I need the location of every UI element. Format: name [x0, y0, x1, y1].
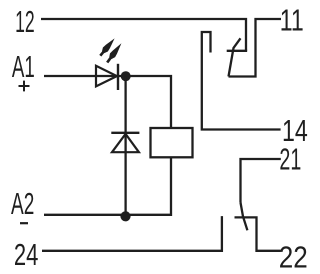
LED D1 triangle (anode) [96, 66, 117, 87]
junction node on A2 line [120, 211, 130, 221]
wire terminal 12 to NC fixed contact of K1 [41, 19, 246, 51]
LED D1 cathode bar [117, 64, 119, 90]
diode D2 triangle (pointing up) [112, 134, 139, 152]
wire terminal 21 to common of contact K2 [241, 159, 281, 203]
diode D2 cathode bar [111, 132, 139, 134]
wire A1 to coil top [44, 76, 171, 128]
wire coil bottom to A2 line [44, 157, 171, 215]
svg-text:A1: A1 [12, 49, 35, 84]
svg-text:21: 21 [279, 142, 301, 177]
svg-text:12: 12 [15, 4, 35, 39]
svg-text:11: 11 [280, 3, 304, 38]
relay coil K1 [151, 128, 193, 157]
NC contact foot (12 side) [227, 50, 247, 52]
svg-text:A2: A2 [11, 186, 34, 221]
svg-text:22: 22 [279, 239, 308, 274]
LED D1 emission arrow 2 [105, 41, 124, 64]
coil polarity plus sign [19, 81, 30, 92]
wire terminal 24 to NO fixed contact of K2 [42, 216, 222, 251]
wire terminal 11 to common bar of contact K1 [229, 19, 282, 77]
contact blade K1 (changeover 11-12-14) [229, 38, 241, 76]
contact blade K2 (changeover 21-22-24) [241, 203, 248, 231]
wire terminal 14 to NO fixed contact of K1 [202, 32, 281, 130]
LED D1 emission arrow 1 [98, 36, 117, 57]
wire terminal 22 to NC fixed contact of K2 (with foot) [235, 217, 281, 250]
coil polarity minus sign [20, 222, 28, 224]
junction node after LED (coil top branch) [121, 71, 131, 81]
wire freewheeling diode branch [124, 76, 126, 216]
svg-text:24: 24 [14, 237, 39, 272]
